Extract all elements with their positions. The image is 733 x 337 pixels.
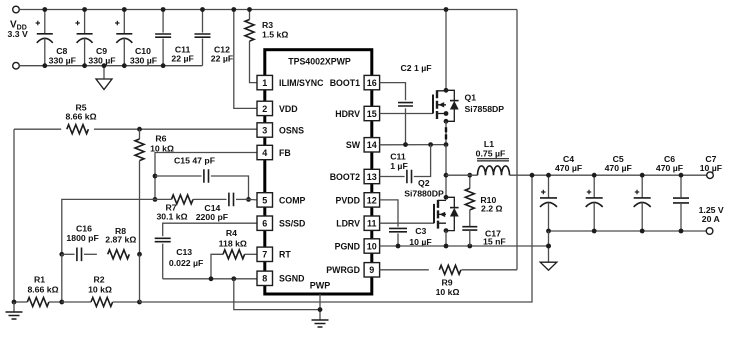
pin 10 PGND [364,239,380,253]
wire BOOT1 / capacitor C2 1 uF [380,83,406,101]
svg-text:C15 47 pF: C15 47 pF [174,156,215,166]
svg-text:1: 1 [262,78,267,88]
pin 11 LDRV [364,216,380,230]
svg-text:RT: RT [279,250,291,260]
capacitor C4 470 uF [548,175,550,198]
wire OSNS line [14,128,61,130]
node COMP [246,197,251,202]
capacitor C13 0.022 uF [155,238,171,241]
node C16 left [59,252,64,257]
svg-text:BOOT2: BOOT2 [330,172,360,182]
ground PWP pad [319,294,321,320]
svg-text:C13: C13 [176,247,192,257]
output terminal + [707,172,714,179]
node sense tap [530,173,535,178]
wire output sense line [140,175,533,302]
svg-text:SS/SD: SS/SD [279,219,305,229]
svg-text:8.66 kΩ: 8.66 kΩ [65,111,96,121]
pin 3 OSNS [257,123,273,137]
inductor L1 0.75 uF [446,174,478,176]
resistor R7 30.1 kOhm [171,195,193,204]
wire bottom input rail [19,65,202,67]
svg-text:330 µF: 330 µF [49,55,76,65]
pin 9 PWRGD [364,263,380,277]
node SGND branch [231,276,236,281]
wire Q1 source to SW [445,121,447,144]
resistor R2 10 kOhm [91,298,113,307]
pin 1 ILIM/SYNC [257,75,273,89]
resistor R6 10 kOhm [139,129,141,139]
svg-text:9: 9 [369,265,374,275]
pin 16 BOOT1 [364,75,380,89]
pin 2 VDD [257,101,273,115]
svg-text:2.87 kΩ: 2.87 kΩ [105,235,136,245]
wire C16 row to bottom [61,254,63,302]
resistor R10 2.2 Ohm [469,175,471,188]
resistor R8 2.87 kOhm [108,250,130,259]
svg-text:1 µF: 1 µF [390,161,408,171]
capacitor C7 10 uF [680,175,682,197]
svg-text:VDD: VDD [279,104,298,114]
wire VOUT rail [510,174,711,176]
svg-text:470 µF: 470 µF [555,163,582,173]
pin 4 FB [257,145,273,159]
pin 13 BOOT2 [364,169,380,183]
svg-text:330 µF: 330 µF [88,55,115,65]
svg-text:10 kΩ: 10 kΩ [436,287,460,297]
svg-text:Si7880DP: Si7880DP [404,189,444,199]
pin 7 RT [257,247,273,261]
svg-text:7: 7 [262,250,267,260]
svg-text:8.66 kΩ: 8.66 kΩ [27,285,58,295]
svg-text:R6: R6 [155,134,166,144]
node R8/R6 [137,252,142,257]
pin 15 HDRV [364,106,380,120]
pin 6 SS/SD [257,216,273,230]
svg-text:13: 13 [367,172,377,182]
svg-text:330 µF: 330 µF [130,55,157,65]
pin 5 COMP [257,193,273,207]
svg-text:30.1 kΩ: 30.1 kΩ [156,212,187,222]
svg-text:470 µF: 470 µF [605,163,632,173]
wire SS/SD pin 6 [163,223,257,236]
wire SGND pin 8 [163,278,257,280]
svg-text:Si7858DP: Si7858DP [465,104,505,114]
svg-text:0.022 µF: 0.022 µF [169,258,203,268]
pin 14 SW [364,138,380,152]
svg-text:R3: R3 [262,20,273,30]
svg-text:2.2 Ω: 2.2 Ω [481,203,502,213]
svg-text:Q1: Q1 [465,93,477,103]
capacitor C11 22 uF [162,10,164,33]
svg-text:11: 11 [367,219,377,229]
svg-text:BOOT1: BOOT1 [330,78,360,88]
svg-text:1.5 kΩ: 1.5 kΩ [262,30,288,40]
output terminal - [706,228,713,235]
svg-text:C3: C3 [415,226,426,236]
ground left [12,300,17,305]
svg-text:10 kΩ: 10 kΩ [88,285,112,295]
node FB/C15 [153,174,158,179]
wire PGND rail [380,245,549,247]
svg-text:14: 14 [367,140,377,150]
svg-text:COMP: COMP [279,195,306,205]
wire Q2 source to PGND [445,231,447,246]
wire LDRV to Q2 gate [380,222,434,224]
wire FB pin 4 [155,153,257,200]
capacitor C17 15 nF [469,210,471,227]
svg-text:TPS4002XPWP: TPS4002XPWP [288,57,351,67]
svg-text:R1: R1 [34,275,45,285]
svg-text:16: 16 [367,78,377,88]
capacitor C10 330 uF [123,10,125,34]
resistor R1 8.66 kOhm [14,301,27,303]
svg-text:118 kΩ: 118 kΩ [219,238,247,248]
svg-text:PVDD: PVDD [336,195,360,205]
svg-text:2200 pF: 2200 pF [196,212,228,222]
pin 12 PVDD [364,193,380,207]
transistor Q1 Si7858DP [432,95,434,114]
svg-text:SW: SW [346,140,361,150]
transistor Q2 Si7880DP [433,204,435,223]
wire output ground rail [549,230,710,232]
svg-text:22 µF: 22 µF [171,54,193,64]
capacitor C16 1800 pF [62,253,75,255]
wire RT pin 7 / resistor R4 118 kOhm [245,253,257,255]
body diode Q1 [446,90,454,121]
svg-text:8: 8 [262,274,267,284]
svg-text:15 nF: 15 nF [483,237,506,247]
capacitor C9 330 uF [84,10,86,34]
pin 8 SGND [257,271,273,285]
ground input rail [103,66,105,79]
svg-text:Q2: Q2 [418,178,430,188]
svg-text:10: 10 [367,241,377,251]
wire PVDD / capacitor C3 10 uF [380,200,398,227]
svg-text:SGND: SGND [279,274,304,284]
node SW / L1 [444,173,449,178]
svg-text:R4: R4 [226,228,237,238]
svg-text:HDRV: HDRV [335,109,360,119]
wire HDRV to Q1 gate [380,113,433,115]
node R1/R2 [59,300,64,305]
ground output [548,231,550,262]
op-amp U1 TPS4002XPWP outline [265,50,372,294]
svg-text:C16: C16 [76,224,92,234]
svg-text:PGND: PGND [335,241,360,251]
wire left sense drop [13,129,15,302]
input terminal return [13,62,20,69]
svg-text:L1: L1 [484,139,494,149]
svg-text:FB: FB [279,148,291,158]
svg-text:OSNS: OSNS [279,125,304,135]
svg-text:1800 pF: 1800 pF [66,233,98,243]
wire VDD to pin 2 [234,10,257,109]
body diode Q2 [446,197,454,230]
wire R9 pullup to VDD rail [516,10,518,270]
svg-text:C2 1 µF: C2 1 µF [401,63,432,73]
svg-text:20 A: 20 A [702,214,721,224]
svg-text:3.3 V: 3.3 V [8,29,28,39]
svg-text:R2: R2 [93,275,104,285]
svg-text:15: 15 [367,109,377,119]
svg-text:470 µF: 470 µF [656,163,683,173]
svg-text:22 µF: 22 µF [211,54,233,64]
capacitor C8 330 uF [44,10,46,34]
svg-text:12: 12 [367,195,377,205]
svg-text:5: 5 [262,195,267,205]
wire Q1 drain from input rail [445,10,447,91]
wire COMP line [249,198,258,201]
capacitor C6 470 uF [641,175,643,198]
svg-text:2: 2 [262,104,267,114]
wire top input rail [19,9,517,11]
svg-text:LDRV: LDRV [336,219,360,229]
wire SW node down to Q2 [445,145,447,198]
node R4/SGND [209,276,214,281]
node R2/sense [137,300,142,305]
input terminal VDD + [13,6,20,13]
svg-text:0.75 µF: 0.75 µF [476,149,506,159]
capacitor C5 470 uF [593,175,595,198]
resistor R9 10 kOhm [380,269,429,271]
svg-text:3: 3 [262,125,267,135]
svg-text:C11: C11 [390,151,406,161]
node R5/R6 [137,127,142,132]
resistor R3 1.5 kOhm [249,10,251,20]
capacitor C14 2200 pF [229,193,234,207]
wire SGND to PWP ground [234,279,320,310]
resistor R5 8.66 kOhm [67,125,89,134]
svg-text:10 µF: 10 µF [409,237,431,247]
svg-text:R9: R9 [441,278,452,288]
svg-text:6: 6 [262,219,267,229]
capacitor C15 47 pF [155,175,202,177]
svg-text:ILIM/SYNC: ILIM/SYNC [279,78,324,88]
svg-text:4: 4 [262,148,267,158]
svg-text:PWP: PWP [310,281,331,291]
capacitor C12 22 uF [202,10,204,33]
wire SW pin 14 [380,144,446,146]
wire BOOT2 / capacitor C11 1 uF [380,176,405,178]
svg-text:PWRGD: PWRGD [326,265,360,275]
